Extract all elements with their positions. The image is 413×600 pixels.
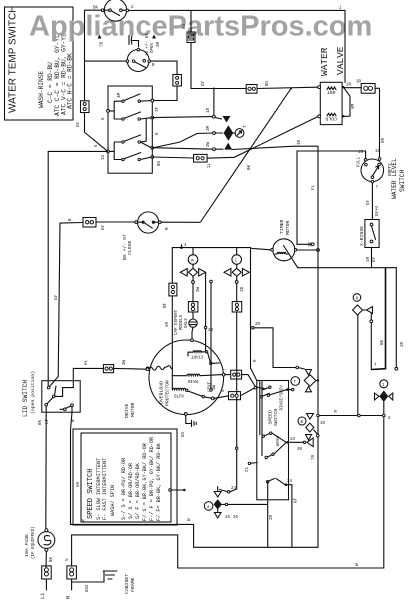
svg-text:34: 34 — [287, 480, 293, 484]
svg-text:1T: 1T — [156, 106, 160, 112]
svg-text:W: W — [82, 519, 86, 522]
svg-text:25: 25 — [225, 516, 231, 520]
svg-text:DRIVE: DRIVE — [124, 403, 130, 418]
svg-text:a: a — [207, 506, 210, 510]
svg-text:GY: GY — [373, 256, 377, 262]
svg-text:2: 2 — [131, 6, 134, 10]
svg-text:M: M — [334, 411, 337, 415]
svg-text:GN: GN — [182, 431, 186, 437]
svg-text:BU: BU — [183, 23, 187, 29]
svg-text:F- FAST INTERMITTENT: F- FAST INTERMITTENT — [102, 458, 108, 520]
svg-text:LID SWITCH: LID SWITCH — [22, 380, 29, 417]
svg-text:BU: BU — [266, 80, 270, 86]
svg-text:X-RINSE: X-RINSE — [359, 226, 365, 246]
svg-text:7: 7 — [224, 368, 228, 371]
svg-text:C-C = RD-BU: C-C = RD-BU — [47, 62, 54, 103]
svg-text:2W: 2W — [207, 141, 211, 147]
svg-text:ATC H-C = RD-BK: ATC H-C = RD-BK — [67, 53, 74, 109]
svg-text:F/ S = BR-BK,GY-BK/ RD-OR: F/ S = BR-BK,GY-BK/ RD-OR — [142, 443, 148, 521]
svg-text:SWITCH: SWITCH — [273, 409, 279, 426]
svg-text:K: K — [156, 132, 160, 135]
svg-text:SWITCH: SWITCH — [399, 169, 406, 192]
svg-text:36: 36 — [320, 422, 326, 426]
svg-text:BK: BK — [381, 339, 385, 345]
svg-text:MODELS: MODELS — [180, 314, 184, 330]
svg-text:F-/ F = BR-PU, GY-BK/ RD-OR: F-/ F = BR-PU, GY-BK/ RD-OR — [149, 437, 155, 521]
svg-text:BK: BK — [50, 556, 54, 562]
svg-text:F/ F= BR-BK, GY-BK/ RD-BK: F/ F= BR-BK, GY-BK/ RD-BK — [156, 442, 162, 521]
svg-text:m: m — [191, 260, 194, 264]
svg-text:1R: 1R — [298, 139, 302, 145]
svg-text:GY: GY — [77, 121, 81, 127]
svg-text:18: 18 — [207, 107, 211, 113]
svg-text:WATER TEMP SWITCH: WATER TEMP SWITCH — [8, 6, 19, 113]
svg-text:7R: 7R — [312, 454, 316, 460]
svg-text:WATER LEVEL: WATER LEVEL — [391, 158, 398, 199]
svg-text:1L: 1L — [208, 162, 212, 168]
svg-text:BK: BK — [248, 164, 252, 170]
svg-text:GY: GY — [102, 224, 106, 230]
svg-text:SPEED: SPEED — [268, 410, 274, 425]
svg-text:S/ F = BR-OR/RD-BK: S/ F = BR-OR/RD-BK — [135, 462, 141, 519]
svg-text:76 +/- 5T: 76 +/- 5T — [145, 33, 150, 56]
svg-text:OPEN: OPEN — [151, 42, 155, 53]
svg-text:WASH/ SPIN: WASH/ SPIN — [110, 485, 116, 516]
svg-text:7: 7 — [374, 364, 377, 368]
svg-text:COLD: COLD — [325, 116, 337, 122]
svg-text:GY: GY — [202, 80, 206, 86]
svg-text:S-/ S = BR-PU/ RD-OR: S-/ S = BR-PU/ RD-OR — [121, 458, 127, 520]
svg-text:2M: 2M — [207, 125, 211, 131]
svg-text:X: X — [388, 417, 391, 421]
svg-text:7: 7 — [293, 381, 296, 385]
svg-text:10A FUSE: 10A FUSE — [24, 534, 30, 557]
svg-text:FL: FL — [312, 184, 316, 190]
svg-text:BT: BT — [164, 302, 168, 308]
svg-text:HOT: HOT — [327, 89, 336, 95]
svg-text:GY+U: GY+U — [376, 205, 380, 216]
svg-text:BN: BN — [158, 160, 162, 166]
svg-text:AUTO: AUTO — [173, 392, 184, 396]
svg-text:CAP EXPERT: CAP EXPERT — [175, 309, 179, 335]
svg-text:PROTECTOR: PROTECTOR — [165, 380, 171, 406]
svg-text:START: START — [190, 354, 203, 358]
svg-text:AppliancePartsPros.com: AppliancePartsPros.com — [29, 11, 372, 43]
svg-text:GY: GY — [367, 199, 371, 205]
svg-text:6: 6 — [95, 144, 99, 147]
svg-text:WATER: WATER — [319, 47, 330, 76]
svg-text:33: 33 — [290, 438, 296, 442]
svg-text:W: W — [188, 518, 192, 521]
svg-text:GY: GY — [55, 294, 59, 300]
svg-text:B: B — [69, 218, 73, 221]
svg-text:RINSE/SPIN: RINSE/SPIN — [280, 385, 285, 411]
svg-text:FULL: FULL — [358, 156, 362, 167]
svg-text:3R: 3R — [356, 81, 362, 85]
svg-text:(IF EQUIPPED): (IF EQUIPPED) — [31, 526, 36, 559]
svg-text:W: W — [72, 419, 76, 422]
svg-text:W: W — [356, 563, 360, 566]
svg-text:30: 30 — [297, 448, 303, 452]
svg-text:OVERLOAD: OVERLOAD — [159, 381, 165, 404]
svg-text:26: 26 — [233, 516, 239, 520]
svg-text:B: B — [152, 64, 155, 68]
svg-text:N: N — [66, 596, 72, 599]
svg-text:VH: VH — [77, 481, 81, 487]
svg-text:2R: 2R — [255, 323, 261, 327]
svg-text:CLOSE: CLOSE — [127, 240, 133, 255]
svg-text:MOTOR: MOTOR — [130, 402, 136, 417]
svg-text:1R: 1R — [367, 256, 371, 262]
svg-text:SPEED SWITCH: SPEED SWITCH — [87, 469, 95, 519]
svg-text:N: N — [66, 558, 70, 561]
svg-text:VALVE: VALVE — [335, 46, 346, 75]
svg-text:WASH-RINSE: WASH-RINSE — [38, 71, 45, 108]
svg-text:HL: HL — [85, 359, 89, 365]
svg-text:WASH: WASH — [277, 435, 281, 446]
svg-text:15: 15 — [375, 150, 381, 154]
svg-text:7: 7 — [376, 186, 379, 190]
svg-text:BK: BK — [93, 7, 99, 11]
svg-text:CABINET: CABINET — [124, 574, 130, 594]
svg-text:VM: VM — [352, 103, 356, 109]
svg-text:R: R — [254, 359, 258, 362]
svg-text:7B: 7B — [101, 41, 105, 47]
svg-text:1R: 1R — [346, 84, 352, 88]
svg-text:16: 16 — [358, 151, 364, 155]
svg-text:T: T — [244, 125, 248, 128]
svg-text:FRAME: FRAME — [130, 577, 136, 592]
svg-text:5: 5 — [222, 389, 226, 392]
svg-text:2W: 2W — [197, 286, 201, 292]
svg-text:DR: DR — [382, 137, 386, 143]
svg-text:3R: 3R — [401, 341, 405, 347]
svg-text:4M: 4M — [118, 92, 122, 98]
svg-text:S/ S = BR-OR/RD-OR: S/ S = BR-OR/RD-OR — [128, 463, 134, 519]
svg-text:24: 24 — [231, 487, 237, 491]
svg-text:SW: SW — [213, 384, 217, 390]
svg-text:VH: VH — [166, 321, 170, 327]
svg-text:1V: 1V — [102, 154, 106, 160]
svg-text:(open position): (open position) — [30, 371, 36, 414]
svg-text:3R: 3R — [270, 514, 274, 520]
svg-text:BK: BK — [39, 419, 43, 425]
svg-text:MOTOR: MOTOR — [285, 220, 291, 235]
svg-text:2M: 2M — [157, 41, 161, 47]
svg-text:3W: 3W — [123, 359, 127, 365]
svg-text:GT: GT — [295, 497, 299, 503]
svg-text:MAIN: MAIN — [187, 378, 198, 382]
svg-text:TIMER: TIMER — [279, 219, 285, 234]
svg-text:L: L — [235, 260, 238, 264]
svg-text:M: M — [166, 227, 170, 230]
svg-text:GN2: GN2 — [86, 584, 90, 592]
svg-text:21: 21 — [246, 466, 250, 472]
svg-text:6: 6 — [102, 117, 106, 120]
svg-text:1B: 1B — [241, 286, 245, 292]
svg-text:L1: L1 — [40, 593, 46, 599]
